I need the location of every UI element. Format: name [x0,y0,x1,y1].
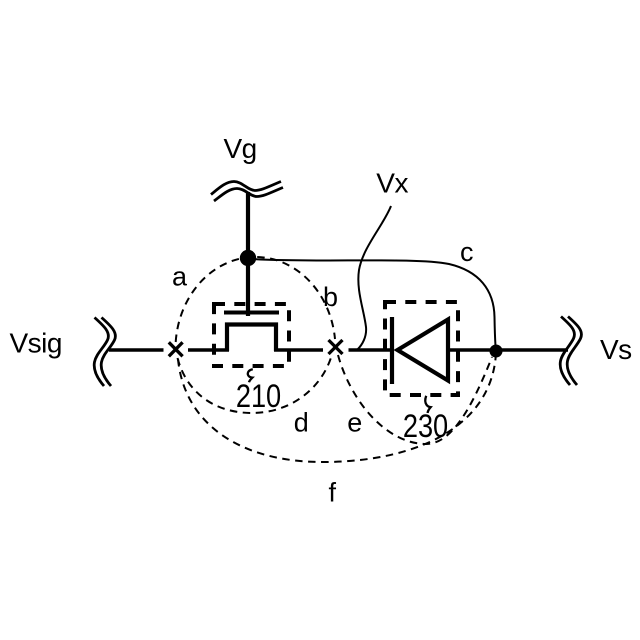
label Vg [224,133,257,164]
label c [460,237,474,267]
label 210 [236,379,281,415]
break symbol on Vg lead (double wavy) [211,182,283,202]
capacitance arc f (x1 to Vs node, outer) [178,353,496,462]
crossing marker x2 (node b/d/e tap, Vx) [329,340,343,354]
svg-text:210: 210 [236,379,281,415]
leader squiggle 230 [425,396,430,413]
label 230 [403,409,448,445]
capacitance arc d (x1 to x2 under 210) [178,356,332,413]
diode 230 triangle [398,320,449,381]
wire diode to Vs [448,348,568,352]
wire transistor to diode [274,348,393,352]
label e [347,408,362,438]
label b [323,282,338,312]
break symbol on Vs lead (double wavy) [560,317,581,386]
leader squiggle 210 [248,369,253,382]
label f [329,478,337,508]
label Vx [376,167,408,198]
node Vg (junction dot) [240,250,256,266]
wire Vsig to transistor [109,348,229,352]
diode 230 cathode bar [390,317,394,384]
node Vs (junction dot) [490,345,503,358]
capacitance arc a/b (x1 up through Vg node to x2) [176,257,335,342]
svg-text:230: 230 [403,409,448,445]
break symbol on Vsig lead (double wavy) [94,318,115,387]
label Vs [600,334,632,365]
label a [172,262,188,292]
svg-text:c: c [460,237,474,267]
svg-text:Vsig: Vsig [10,328,62,359]
dashed box 230 [385,302,458,395]
svg-text:e: e [347,408,362,438]
label d [294,408,309,438]
transistor 210 channel [227,325,276,352]
capacitance arc e (x2 to Vs node under 230) [338,355,492,444]
svg-text:b: b [323,282,338,312]
dashed box 210 [214,304,289,366]
svg-text:Vg: Vg [224,133,257,164]
leader line Vx [358,206,392,350]
svg-text:a: a [172,262,188,292]
label Vsig [10,328,62,359]
crossing marker x1 (node a/d/f tap) [169,342,183,356]
svg-text:f: f [329,478,337,508]
svg-text:Vx: Vx [376,167,408,198]
svg-text:d: d [294,408,309,438]
transistor 210 gate bar [224,311,279,315]
coupling line c (Vg node to Vs node) [252,259,496,346]
wire Vg vertical lead [246,192,250,316]
svg-text:Vs: Vs [600,334,632,365]
